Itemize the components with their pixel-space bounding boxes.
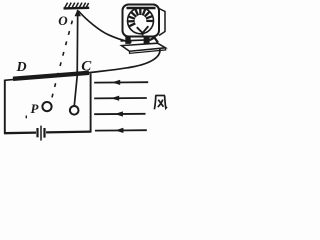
box left wall: [4, 80, 6, 134]
box bottom wall right segment: [46, 130, 91, 133]
machine rod: [121, 40, 151, 41]
machine base thickness: [130, 48, 166, 54]
wire from string top to machine: [79, 11, 132, 42]
string (vertical): [74, 10, 77, 106]
box right wall: [90, 74, 92, 133]
plate D (thick bar): [13, 73, 89, 79]
ball (hanging position): [70, 106, 79, 115]
machine post right: [144, 36, 150, 44]
stray mark: [25, 116, 27, 119]
machine post left: [125, 36, 130, 44]
machine lid line: [127, 7, 156, 10]
machine side face: [159, 9, 165, 36]
dial tick marks: [128, 8, 153, 26]
svg-text:D: D: [16, 60, 27, 75]
wind arrow 1: [94, 80, 148, 85]
label 风 (wind): [154, 95, 167, 109]
machine crank: [150, 38, 159, 43]
dial needle V: [137, 26, 149, 35]
box top-left edge: [5, 78, 14, 81]
machine base: [122, 43, 166, 51]
svg-text:P: P: [31, 101, 40, 116]
wind arrow 3: [94, 111, 145, 116]
ceiling bar: [64, 7, 90, 10]
svg-text:O: O: [58, 13, 68, 28]
battery: [38, 126, 45, 141]
wind arrow 4: [95, 128, 147, 133]
ball at P (displaced position): [42, 102, 51, 111]
wire from machine to plate C: [89, 48, 160, 73]
box bottom wall left segment: [4, 131, 36, 134]
suspension point arrowhead at O: [75, 9, 81, 16]
electrostatic machine body: [123, 5, 160, 37]
machine dial: [128, 8, 154, 34]
wind arrow 2: [94, 96, 147, 101]
dashed string position O-P: [51, 16, 74, 101]
ceiling hatching: [65, 3, 89, 9]
